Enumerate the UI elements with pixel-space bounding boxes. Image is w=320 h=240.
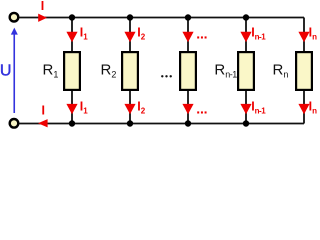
svg-text:...: ... [196, 101, 207, 117]
svg-text:I: I [42, 103, 45, 117]
svg-text:In: In [309, 26, 317, 42]
svg-text:In: In [309, 99, 317, 115]
svg-text:In-1: In-1 [251, 26, 266, 42]
svg-text:I1: I1 [80, 26, 88, 42]
svg-text:I: I [41, 0, 44, 13]
svg-text:...: ... [196, 26, 207, 42]
svg-text:In-1: In-1 [251, 99, 266, 115]
svg-text:I2: I2 [137, 26, 145, 42]
svg-text:Rn: Rn [273, 62, 289, 80]
svg-text:U: U [0, 63, 11, 80]
svg-text:Rn-1: Rn-1 [214, 62, 237, 80]
svg-text:I1: I1 [80, 99, 88, 115]
svg-text:I2: I2 [137, 99, 145, 115]
svg-text:R1: R1 [43, 62, 59, 80]
svg-text:R2: R2 [101, 62, 117, 80]
